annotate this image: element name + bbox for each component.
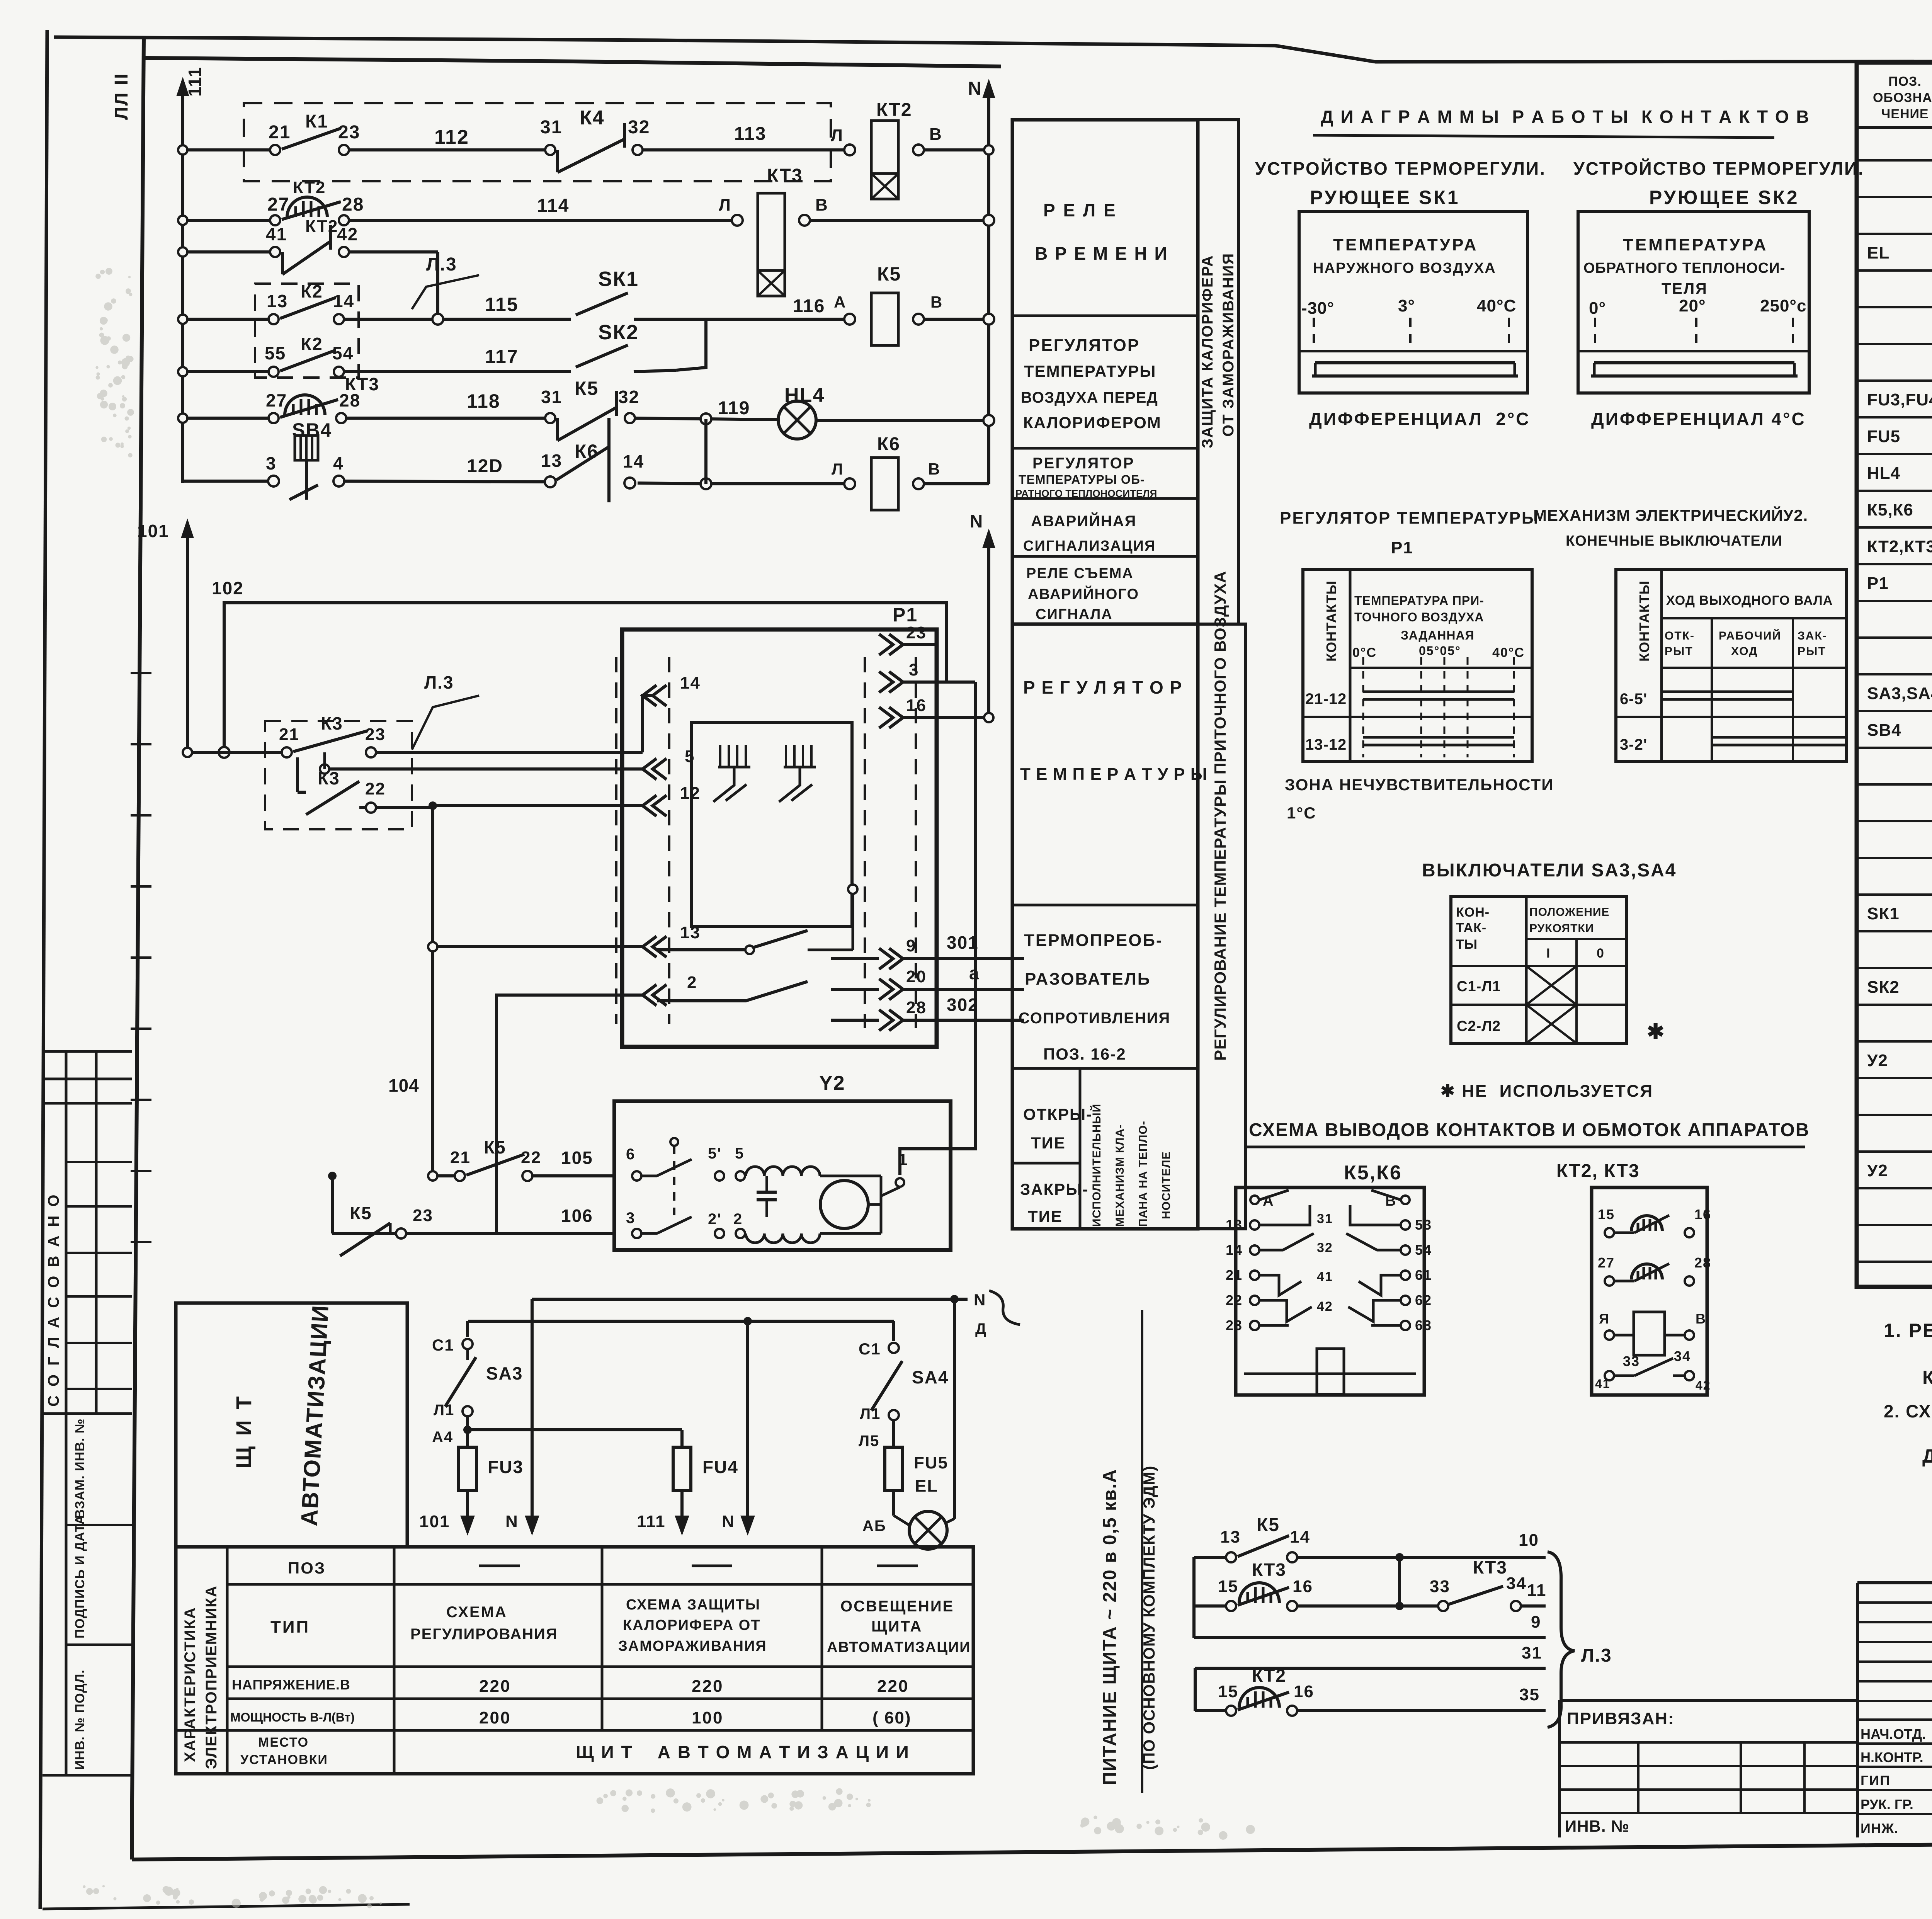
Y2 wires to pin1 [820,1175,881,1177]
svg-text:ДИФФЕРЕНЦИАЛ 4°С: ДИФФЕРЕНЦИАЛ 4°С [1591,409,1806,429]
supply rail line1 N [532,1298,968,1301]
contact K2 13-14 [269,314,279,324]
svg-text:КТ2,КТ3: КТ2,КТ3 [1867,537,1932,556]
svg-text:ТЕМПЕРАТУРА: ТЕМПЕРАТУРА [1623,235,1768,254]
svg-text:0°: 0° [1589,299,1606,318]
svg-text:9: 9 [906,936,916,955]
svg-text:111: 111 [185,66,205,97]
pin 16 chevron and wire [879,707,893,728]
svg-text:МЕСТО: МЕСТО [258,1735,309,1750]
svg-text:15: 15 [1218,1682,1238,1701]
svg-text:116: 116 [793,296,825,316]
lamp EL [894,1516,910,1526]
svg-text:К3: К3 [321,713,343,733]
svg-text:КОНТАКТЫ: КОНТАКТЫ [1323,580,1339,662]
SA table X marks [1526,966,1577,1005]
svg-text:У2: У2 [1867,1051,1888,1070]
svg-text:а: а [969,963,980,983]
svg-text:КТ3 НА 30 СЕК.: КТ3 НА 30 СЕК. [1922,1367,1932,1388]
contact KT2 27-28 timer [270,215,280,225]
svg-text:ТОЧНОГО ВОЗДУХА: ТОЧНОГО ВОЗДУХА [1354,610,1484,624]
svg-text:ЭЛЕКТРОПРИЕМНИКА: ЭЛЕКТРОПРИЕМНИКА [203,1585,220,1769]
P1 inner box [692,723,852,927]
left margin column line A [65,1051,68,1775]
svg-text:ТЕМПЕРАТУРА ПРИ-: ТЕМПЕРАТУРА ПРИ- [1354,594,1484,607]
bus 101 vertical [186,522,189,752]
fuse FU5 [885,1447,903,1490]
wire rung1 112/113 [183,148,275,151]
svg-text:21: 21 [1226,1267,1243,1283]
svg-text:27: 27 [266,390,287,410]
Y2 box [614,1101,951,1250]
svg-text:13: 13 [541,451,562,471]
SK2 diagram box [1578,211,1809,393]
svg-text:СИГНАЛИЗАЦИЯ: СИГНАЛИЗАЦИЯ [1023,538,1156,554]
svg-text:МЕХАНИЗМ КЛА-: МЕХАНИЗМ КЛА- [1114,1124,1126,1227]
svg-text:РЫТ: РЫТ [1798,645,1826,658]
svg-text:13: 13 [1226,1217,1243,1233]
legend box2 row lines [1012,904,1198,907]
svg-text:27: 27 [267,194,289,215]
svg-text:101: 101 [137,521,169,541]
sheet outer left border [40,30,47,1909]
svg-text:3: 3 [626,1210,635,1227]
svg-text:3: 3 [266,453,277,473]
svg-text:К2: К2 [301,334,323,354]
svg-text:НОСИТЕЛЕ: НОСИТЕЛЕ [1160,1151,1173,1219]
svg-text:41: 41 [1317,1269,1333,1284]
wire rung K3 103 [187,751,287,754]
svg-text:42: 42 [1696,1378,1711,1392]
svg-text:2': 2' [708,1211,722,1228]
svg-text:34: 34 [1674,1348,1691,1364]
sign table columns [1856,1583,1859,1837]
svg-text:КТ2: КТ2 [1252,1666,1286,1686]
SK1 bars [1315,361,1515,364]
contact K5 31-32 NC [545,413,555,423]
P1 inner switch contacts [657,931,808,950]
svg-text:✱ НЕ ИСПОЛЬЗУЕТСЯ: ✱ НЕ ИСПОЛЬЗУЕТСЯ [1440,1082,1653,1101]
svg-text:23: 23 [413,1206,433,1225]
svg-text:Р1: Р1 [1867,574,1889,593]
wire pin12 [433,804,643,807]
svg-text:SК1: SК1 [1867,904,1900,923]
svg-text:ПОЗ.: ПОЗ. [1888,74,1922,89]
svg-text:ВОЗДУХА ПЕРЕД: ВОЗДУХА ПЕРЕД [1021,389,1158,406]
svg-text:9: 9 [1531,1613,1541,1631]
pin 3 chevron and wire [879,672,893,692]
svg-text:К5: К5 [575,378,599,399]
svg-text:54: 54 [1415,1242,1432,1258]
P1 transistor symbols [718,766,750,769]
ЩИТ АВТОМАТИЗАЦИИ box [176,1303,407,1547]
svg-text:РАЗОВАТЕЛЬ: РАЗОВАТЕЛЬ [1025,970,1151,988]
svg-text:ЕL: ЕL [1867,243,1889,262]
svg-text:РУЮЩЕЕ SК2: РУЮЩЕЕ SК2 [1649,187,1799,208]
junction vertical bottom ladder [1398,1557,1401,1606]
svg-text:КТ2: КТ2 [876,100,912,120]
svg-text:Y2: Y2 [819,1072,845,1094]
svg-text:N: N [974,1291,986,1309]
svg-text:41: 41 [1595,1377,1611,1391]
svg-text:15: 15 [1218,1577,1238,1596]
branch N2 [746,1321,749,1532]
svg-text:11: 11 [1527,1581,1547,1600]
pin 14 chevron [643,685,656,706]
svg-text:РЕГУЛИРОВАНИЯ: РЕГУЛИРОВАНИЯ [410,1626,558,1643]
characteristics table verticals [226,1547,229,1774]
svg-text:14: 14 [680,674,701,692]
legend box2 outline [1012,624,1198,1229]
contact K6 13-14 [545,476,556,487]
lamp HL4 [778,401,816,439]
svg-text:13: 13 [267,291,288,311]
svg-text:0: 0 [1597,946,1605,961]
svg-text:ТЕРМОПРЕОБ-: ТЕРМОПРЕОБ- [1024,931,1163,950]
svg-text:Л: Л [831,126,844,145]
svg-text:В: В [815,196,828,214]
Y2 interior top row [632,1171,641,1181]
svg-text:РУК. ГР.: РУК. ГР. [1861,1797,1913,1812]
legend narrow col ЗАЩИТА [1198,120,1238,624]
svg-text:ХАРАКТЕРИСТИКА: ХАРАКТЕРИСТИКА [182,1607,199,1762]
P1 work table box [1303,570,1532,762]
svg-text:СХЕМА ЗАЩИТЫ: СХЕМА ЗАЩИТЫ [626,1597,760,1613]
svg-text:(ПО ОСНОВНОМУ КОМПЛЕКТУ ЭДМ): (ПО ОСНОВНОМУ КОМПЛЕКТУ ЭДМ) [1140,1466,1158,1770]
svg-text:К5: К5 [484,1137,506,1157]
svg-text:К5: К5 [877,263,901,285]
svg-text:117: 117 [485,346,519,367]
svg-text:13: 13 [680,923,701,942]
svg-text:SВ4: SВ4 [292,419,332,441]
svg-text:РАБОЧИЙ: РАБОЧИЙ [1719,629,1781,642]
svg-text:К5,К6: К5,К6 [1344,1162,1402,1184]
svg-text:ЗАДАННАЯ: ЗАДАННАЯ [1401,628,1475,642]
svg-text:33: 33 [1430,1577,1450,1596]
wire pin3 down to Y2 pin1 [900,682,975,1175]
svg-text:АВТОМАТИЗАЦИИ: АВТОМАТИЗАЦИИ [827,1639,971,1655]
svg-text:В: В [929,125,942,144]
svg-text:1°С: 1°С [1287,804,1316,822]
svg-text:КАЛОРИФЕРОМ: КАЛОРИФЕРОМ [1023,413,1162,432]
svg-text:1: 1 [898,1150,908,1169]
contact K5 21-22 [455,1171,465,1181]
svg-text:16: 16 [906,696,927,715]
Y2 motor circle [820,1181,868,1228]
characteristics table horizontals [227,1583,973,1586]
svg-text:РЕГУЛИРОВАНИЕ ТЕМПЕРАТУРЫ ПРИТ: РЕГУЛИРОВАНИЕ ТЕМПЕРАТУРЫ ПРИТОЧНОГО ВОЗ… [1211,571,1229,1061]
svg-text:ОБРАТНОГО ТЕПЛОНОСИ-: ОБРАТНОГО ТЕПЛОНОСИ- [1583,260,1785,276]
svg-text:35: 35 [1519,1685,1540,1704]
bus 111 arrow [177,79,188,95]
wire rung3 41-42 [183,250,275,253]
svg-text:Л1: Л1 [860,1405,881,1422]
svg-text:10: 10 [1519,1531,1539,1550]
K5K6 inner contacts right [1371,1190,1401,1200]
wire line 31 [1195,1667,1546,1670]
contact K3 21-23 [282,747,292,757]
svg-text:Н.КОНТР.: Н.КОНТР. [1861,1749,1923,1765]
svg-text:2: 2 [687,973,697,992]
P1 dashed verticals right [864,657,866,1028]
parts table outline [1857,63,1932,1287]
svg-text:-30°: -30° [1301,299,1334,318]
svg-text:К2: К2 [301,281,323,301]
contact K1 21-23 [270,145,280,155]
svg-text:14: 14 [1290,1528,1310,1546]
legend box2 inner vertical [1079,1068,1082,1229]
svg-text:РАТНОГО ТЕПЛОНОСИТЕЛЯ: РАТНОГО ТЕПЛОНОСИТЕЛЯ [1015,488,1157,499]
svg-text:Я: Я [1599,1311,1610,1327]
contact K4 31-32 NC [545,145,555,155]
svg-text:62: 62 [1415,1292,1432,1308]
Y2 coil bottom [746,1233,820,1243]
svg-text:КТ2: КТ2 [305,217,338,236]
svg-text:ПРИВЯЗАН:: ПРИВЯЗАН: [1567,1709,1675,1728]
svg-text:ОТ ЗАМОРАЖИВАНИЯ: ОТ ЗАМОРАЖИВАНИЯ [1220,253,1237,437]
wire line 10 [1194,1556,1231,1559]
KT2KT3 row 33-34 [1605,1371,1614,1380]
parts table row lines [1857,159,1932,162]
inner border ticks [131,672,151,674]
svg-text:УСТРОЙСТВО ТЕРМОРЕГУЛИ.: УСТРОЙСТВО ТЕРМОРЕГУЛИ. [1573,158,1864,179]
svg-text:SК2: SК2 [1867,978,1900,997]
svg-text:Д: Д [975,1320,987,1337]
svg-text:КТ3: КТ3 [1473,1557,1507,1577]
svg-text:ТЕЛЯ: ТЕЛЯ [1662,280,1708,297]
svg-text:31: 31 [540,117,562,138]
svg-text:21-12: 21-12 [1305,691,1347,708]
svg-text:УСТАНОВКИ: УСТАНОВКИ [240,1752,328,1767]
svg-text:А: А [834,293,846,311]
dashed box Л.3 rung1 [244,103,831,181]
KT2KT3 row 27-28 [1605,1276,1614,1286]
svg-text:АБ: АБ [862,1518,886,1535]
ladder top rail [145,58,1001,66]
svg-text:SК2: SК2 [598,321,639,344]
svg-text:28: 28 [1694,1255,1711,1271]
coil KT2 with delay box [844,145,855,155]
svg-text:ХОД ВЫХОДНОГО ВАЛА: ХОД ВЫХОДНОГО ВАЛА [1666,593,1833,608]
svg-text:1. РЕЛЕ ВРЕМЕНИ КТ2 НАСТРОИ: 1. РЕЛЕ ВРЕМЕНИ КТ2 НАСТРОИТЬ НА 3 МИН, … [1884,1320,1932,1341]
svg-text:13: 13 [1220,1528,1241,1546]
svg-text:33: 33 [1623,1353,1640,1369]
sheet bottom border [132,1838,1932,1859]
SA table box [1451,897,1627,1043]
svg-text:16: 16 [1294,1682,1314,1701]
svg-text:16: 16 [1293,1577,1313,1596]
P1 dashed verticals left [615,657,617,1024]
svg-text:14: 14 [623,451,644,471]
svg-text:Д И А Г Р А М М Ы Р А Б О Т Ы: Д И А Г Р А М М Ы Р А Б О Т Ы К О Н Т А … [1321,107,1810,127]
Y2 interior bottom row [632,1229,641,1238]
svg-text:КОНЕЧНЫЕ ВЫКЛЮЧАТЕЛИ: КОНЕЧНЫЕ ВЫКЛЮЧАТЕЛИ [1566,533,1782,549]
svg-text:ПОЗ: ПОЗ [288,1559,326,1577]
svg-text:КОН-: КОН- [1456,905,1490,920]
svg-text:С2-Л2: С2-Л2 [1457,1018,1501,1034]
pin 13 chevron [643,936,656,957]
svg-text:ДЛЯ СИСТЕМ П1- П3: ДЛЯ СИСТЕМ П1- П3 [1922,1445,1932,1467]
svg-text:ХОД: ХОД [1731,645,1758,658]
svg-text:34: 34 [1506,1574,1527,1593]
svg-text:ЗАК-: ЗАК- [1798,629,1827,642]
switch SK1 [576,293,628,315]
svg-text:ОСВЕЩЕНИЕ: ОСВЕЩЕНИЕ [840,1598,954,1615]
svg-text:РЕГУЛЯТОР: РЕГУЛЯТОР [1032,455,1134,472]
legend box1 РЕЛЕ ВРЕМЕНИ outline [1012,120,1198,624]
pushbutton SB4 3-4 [268,476,279,487]
svg-text:31: 31 [1522,1643,1542,1662]
svg-text:ЗОНА НЕЧУВСТВИТЕЛЬНОСТИ: ЗОНА НЕЧУВСТВИТЕЛЬНОСТИ [1285,776,1554,794]
svg-text:ПОЗ. 16-2: ПОЗ. 16-2 [1043,1045,1126,1063]
svg-text:ЛЛ II: ЛЛ II [111,73,132,120]
svg-text:22: 22 [365,779,386,798]
svg-text:Л.3: Л.3 [1581,1645,1612,1666]
pin 20 chevron and wire a [879,979,893,1000]
svg-text:Р1: Р1 [893,604,918,626]
svg-text:28: 28 [906,998,927,1017]
svg-text:Л.3: Л.3 [426,254,457,275]
svg-text:ВЫКЛЮЧАТЕЛИ SА3,SА4: ВЫКЛЮЧАТЕЛИ SА3,SА4 [1422,860,1677,881]
svg-text:2. СХЕМЫ СОСТАВЛЕНЫ ДЛЯ ОДН: 2. СХЕМЫ СОСТАВЛЕНЫ ДЛЯ ОДНОЙ ПРИТОЧНОЙ … [1884,1401,1932,1421]
svg-text:54: 54 [332,343,354,363]
dashed box Л.3 K2 contacts [255,284,359,378]
pin 28 chevron and wire 302 [879,1010,893,1031]
svg-text:13-12: 13-12 [1305,736,1347,753]
svg-text:У2: У2 [1867,1161,1888,1180]
left margin column line B [95,1051,98,1414]
contact KT2 41-42 NC [270,247,280,257]
Y2 plunger dashed [670,1138,678,1146]
brace Л.3 bottom [1548,1552,1575,1727]
svg-text:20°: 20° [1679,296,1706,315]
wire pin2 [497,995,643,1233]
svg-text:N: N [722,1512,735,1531]
svg-text:НАЧ.ОТД.: НАЧ.ОТД. [1861,1726,1926,1742]
svg-text:НL4: НL4 [784,384,825,407]
svg-text:ЩИТА: ЩИТА [871,1618,922,1635]
svg-text:С О Г Л А С О В А Н О: С О Г Л А С О В А Н О [45,1192,62,1407]
svg-text:АВАРИЙНАЯ: АВАРИЙНАЯ [1031,512,1136,530]
svg-text:FU5: FU5 [914,1453,948,1472]
legend box2 narrow col [1198,624,1246,1229]
wire line 35 [1195,1709,1231,1712]
bottom ladder group2 rail [1194,1668,1197,1711]
svg-text:РЕГУЛЯТОР: РЕГУЛЯТОР [1029,336,1140,355]
svg-text:23: 23 [906,623,927,642]
svg-text:АВАРИЙНОГО: АВАРИЙНОГО [1028,585,1139,602]
svg-text:РУКОЯТКИ: РУКОЯТКИ [1529,922,1594,935]
svg-text:220: 220 [479,1677,511,1696]
svg-text:16: 16 [1694,1206,1711,1222]
svg-text:С1: С1 [432,1336,454,1354]
svg-text:05°05°: 05°05° [1419,644,1461,658]
svg-text:55: 55 [265,343,286,363]
svg-text:ЕL: ЕL [915,1477,938,1495]
coil KT3 with delay box [732,215,743,226]
svg-text:FU3,FU4: FU3,FU4 [1867,390,1932,409]
contact K2 55-54 [269,367,279,377]
wire 102 rail [224,603,947,752]
wire rung4 115/116 [183,318,274,321]
svg-text:250°с: 250°с [1760,296,1806,315]
svg-text:ТАК-: ТАК- [1456,920,1486,935]
sign table top [1857,1581,1932,1584]
vertical link rung6-rung7 right [704,419,707,484]
svg-text:32: 32 [1317,1240,1333,1255]
K5K6 terminals left [1250,1220,1259,1230]
K5K6 connector box [1236,1187,1424,1395]
svg-text:FU5: FU5 [1867,427,1900,446]
svg-text:ИНВ. № ПОДЛ.: ИНВ. № ПОДЛ. [73,1669,87,1770]
SK2 bars [1594,361,1794,364]
fuse FU3 [459,1447,476,1490]
svg-text:ТЕМПЕРАТУРА: ТЕМПЕРАТУРА [1333,235,1478,254]
wire pin13 [433,945,643,948]
svg-text:К6: К6 [575,441,599,462]
svg-text:ЗАМОРАЖИВАНИЯ: ЗАМОРАЖИВАНИЯ [618,1638,767,1654]
svg-text:ВЗАМ. ИНВ. №: ВЗАМ. ИНВ. № [73,1418,87,1519]
svg-text:ДИФФЕРЕНЦИАЛ 2°С: ДИФФЕРЕНЦИАЛ 2°С [1309,409,1531,429]
svg-text:( 60): ( 60) [872,1708,911,1727]
bottom ladder left rail [1192,1557,1196,1638]
legend box1 row lines [1012,315,1198,317]
svg-text:SА3: SА3 [486,1363,523,1383]
svg-text:К4: К4 [580,107,605,129]
svg-text:КТ2: КТ2 [293,178,326,197]
svg-text:ТИП: ТИП [270,1618,310,1637]
svg-text:КТ2, КТ3: КТ2, КТ3 [1556,1161,1640,1181]
bus N middle vertical [987,532,990,718]
svg-text:N: N [505,1512,519,1531]
KT2KT3 connector box [1592,1187,1707,1395]
svg-text:С1-Л1: С1-Л1 [1457,978,1501,995]
leader Л.3 K3 [412,696,479,750]
svg-text:112: 112 [434,126,469,148]
supply rail line2 [468,1320,894,1323]
svg-text:104: 104 [388,1075,419,1096]
svg-text:21: 21 [269,122,291,143]
pin 23 chevron and wire [879,634,893,655]
svg-text:15: 15 [1598,1206,1615,1222]
svg-text:Т Е М П Е Р А Т У Р Ы: Т Е М П Е Р А Т У Р Ы [1020,765,1207,784]
bus 111 vertical [181,81,184,483]
svg-text:SВ4: SВ4 [1867,721,1901,740]
svg-text:ОТК-: ОТК- [1665,629,1695,642]
svg-text:5: 5 [735,1145,744,1162]
wire pin5 [325,767,643,771]
wire rung2 114 [183,219,275,222]
wire line 11 [1194,1604,1231,1608]
wire rung3 drop to rung4 [436,252,439,319]
svg-text:105: 105 [561,1148,593,1168]
svg-text:Р1: Р1 [1391,538,1413,557]
contact K5 13-14 bottom [1226,1552,1236,1562]
contact KT3 33-34 bottom [1438,1601,1448,1611]
svg-text:61: 61 [1415,1267,1432,1283]
svg-text:SК1: SК1 [598,267,639,291]
svg-text:22: 22 [1226,1292,1243,1308]
K5K6 inner contacts left [1259,1190,1289,1200]
Y2 capacitor [757,1191,777,1194]
pin 5 chevron [643,759,656,779]
svg-text:5: 5 [685,747,695,766]
contact K3 22 NC [366,803,376,813]
coil K6 [844,478,855,489]
svg-text:ПОДПИСЬ И ДАТА: ПОДПИСЬ И ДАТА [73,1515,87,1638]
SK2 dashed scale lines [1594,318,1596,351]
P1 table bars [1363,691,1514,693]
